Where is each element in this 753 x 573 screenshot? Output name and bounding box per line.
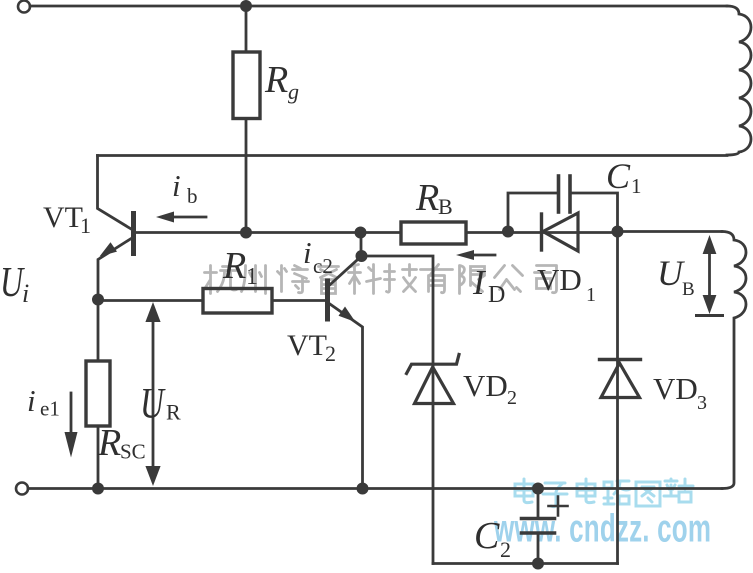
label VD3 (653, 371, 707, 414)
wire Rg bottom lead down to base node (245, 119, 248, 233)
arrow ie1 current (70, 393, 73, 434)
node junction C1 right (612, 226, 624, 238)
capacitor C1 plates (557, 176, 561, 212)
zener VD2 cathode bar (407, 355, 460, 374)
tick UB bottom reference (697, 314, 723, 317)
svg-text:C: C (474, 515, 500, 557)
node junction RSC-rail (92, 483, 104, 495)
label VD2 (463, 368, 517, 409)
transistor VT1 emitter arrow (100, 242, 118, 256)
transistor VT1 base bar (131, 214, 136, 254)
label Ui input (0, 260, 29, 308)
wire to VD2 branch (362, 256, 434, 564)
svg-text:1: 1 (586, 284, 596, 306)
capacitor C1 loop right (571, 193, 618, 232)
capacitor C2 plates (522, 517, 555, 521)
wire VT2 collector drop (360, 233, 363, 257)
svg-text:i: i (172, 168, 181, 203)
node junction Rg-base (240, 227, 252, 239)
label C1 (606, 156, 642, 198)
svg-text:g: g (288, 79, 299, 104)
svg-text:R: R (222, 245, 246, 287)
svg-text:R: R (415, 177, 439, 219)
label UR (140, 380, 181, 427)
resistor RSC (86, 361, 110, 426)
resistor RSC bottom lead (97, 426, 100, 489)
wire bottom loop (433, 562, 618, 565)
svg-text:B: B (438, 194, 453, 219)
diode VD1 triangle (543, 213, 578, 251)
label UB (657, 253, 695, 300)
transistor VT2 base bar (325, 281, 330, 319)
wire node to L2 (618, 230, 723, 233)
label ID (472, 263, 505, 308)
inductor L1 top-right winding (727, 6, 751, 155)
diode VD1 cathode bar (540, 214, 543, 250)
label VT2 (287, 329, 336, 366)
resistor RB (401, 222, 466, 244)
svg-text:B: B (682, 279, 695, 300)
polarity plus C2 (549, 497, 568, 516)
inductor L2 right winding (722, 232, 746, 489)
resistor Rg (233, 52, 260, 119)
svg-text:VD: VD (537, 262, 582, 297)
arrow ib current (170, 216, 206, 219)
watermark grey company text (205, 265, 557, 294)
svg-text:i: i (22, 279, 29, 308)
label VT1 (43, 201, 91, 238)
label ic2 (303, 235, 333, 278)
label C2 (474, 515, 511, 562)
wire emitter to R1 (98, 299, 203, 302)
svg-text:2: 2 (325, 341, 336, 366)
label R1 (222, 245, 258, 290)
label RSC (97, 422, 146, 464)
svg-text:1: 1 (631, 174, 642, 198)
wire VD3 top lead (616, 232, 619, 564)
watermark cyan url (493, 507, 711, 551)
svg-text:3: 3 (697, 392, 707, 414)
wire bottom rail (28, 487, 722, 490)
node junction top (Rg tap) (240, 0, 252, 12)
node junction C2 top on rail (532, 483, 544, 495)
svg-text:U: U (140, 380, 166, 427)
label RB (415, 177, 453, 219)
svg-text:D: D (488, 282, 505, 308)
transistor VT2 emitter lead (329, 303, 363, 488)
svg-text:i: i (27, 383, 36, 418)
wire second rail (98, 154, 728, 157)
svg-text:VT: VT (43, 201, 83, 234)
svg-text:2: 2 (507, 387, 517, 409)
terminal input bottom-left (16, 483, 28, 495)
node junction VT2 emitter-rail (357, 483, 369, 495)
svg-text:VD: VD (653, 371, 698, 406)
arrow ID current (470, 254, 495, 257)
node junction C2 bottom (532, 558, 544, 570)
node VT1 emitter junction (92, 294, 104, 306)
transistor VT2 collector lead (329, 256, 362, 286)
capacitor C2 top lead (537, 489, 540, 519)
svg-text:R: R (166, 400, 181, 425)
arrow UR voltage double head (152, 314, 155, 473)
label ib (172, 168, 198, 208)
diode VD3 triangle (601, 363, 640, 398)
svg-text:1: 1 (246, 264, 258, 290)
transistor VT1 emitter lead (98, 238, 132, 299)
resistor R1 (203, 289, 272, 314)
label VD1 (537, 262, 596, 306)
svg-text:2: 2 (500, 537, 511, 562)
label ie1 (27, 383, 60, 421)
resistor RSC top lead (97, 300, 100, 362)
wire Rg top lead (245, 6, 248, 52)
node junction C1 left (502, 226, 514, 238)
wire base rail y=232.5 (134, 231, 401, 234)
transistor VT1 collector wire (98, 156, 133, 230)
svg-text:VD: VD (463, 368, 508, 403)
svg-text:b: b (187, 184, 198, 208)
zener VD2 triangle (415, 367, 454, 404)
svg-text:U: U (657, 253, 685, 293)
wire R1 to VT2 base (272, 299, 326, 302)
capacitor C1 loop left (508, 193, 557, 232)
arrow UB voltage double head (708, 246, 711, 304)
svg-text:SC: SC (120, 440, 146, 464)
node junction collector-VD2 (356, 250, 368, 262)
diode VD3 cathode bar (600, 358, 641, 361)
svg-text:C: C (606, 156, 631, 196)
capacitor C2 bottom lead (537, 533, 540, 564)
svg-text:R: R (264, 59, 288, 101)
svg-text:www. cndzz. com: www. cndzz. com (493, 507, 711, 551)
terminal input top-left (18, 1, 30, 13)
watermark cyan site name (515, 479, 693, 507)
svg-text:1: 1 (80, 213, 91, 238)
wire top rail (30, 5, 727, 8)
node junction VT2 collector tap (355, 227, 367, 239)
svg-text:i: i (303, 235, 312, 270)
wire RB to VD1 (466, 231, 618, 234)
transistor VT2 emitter arrow (339, 307, 356, 323)
svg-text:R: R (97, 422, 121, 464)
label Rg (264, 59, 299, 104)
svg-text:e1: e1 (40, 397, 60, 421)
svg-text:c2: c2 (313, 254, 333, 278)
svg-text:VT: VT (287, 329, 327, 362)
